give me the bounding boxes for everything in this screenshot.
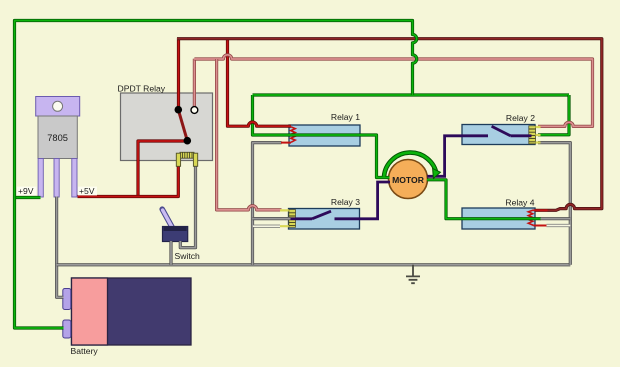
wire red DPDT lower contact to +5V rail bbox=[138, 141, 187, 197]
relay 4 coil pin stub lower (red) bbox=[534, 225, 547, 227]
svg-text:+5V: +5V bbox=[79, 186, 95, 196]
relay 2 box bbox=[462, 125, 535, 145]
wire gray ground bus bbox=[57, 263, 571, 266]
motor rotation arc bbox=[384, 153, 437, 177]
relay 1 box bbox=[289, 125, 360, 146]
battery terminal (negative, top) bbox=[63, 289, 71, 310]
motor M1 body bbox=[389, 160, 428, 199]
wire red DPDT pole up bbox=[177, 38, 180, 111]
svg-text:Switch: Switch bbox=[175, 251, 201, 261]
relay 4 box bbox=[462, 208, 535, 229]
battery body negative (dark) section bbox=[72, 278, 192, 345]
label +5V bbox=[78, 187, 97, 196]
regulator U1 7805 tab bbox=[36, 97, 80, 117]
svg-text:Relay 1: Relay 1 bbox=[331, 112, 360, 122]
DPDT coil leg right bbox=[193, 153, 197, 166]
DPDT switch blade bbox=[178, 110, 187, 141]
wire maroon 9V switched rail (hop over gray at right) bbox=[177, 39, 602, 211]
switch S1 body bbox=[163, 227, 188, 242]
wire purple relay3 common pole bbox=[291, 217, 313, 220]
wire gray DPDT coil to switch bbox=[180, 166, 195, 248]
U1 pin 2 (ground) bbox=[54, 159, 59, 198]
U1 pin 3 (output) bbox=[72, 159, 77, 198]
wire green battery positive loop (hops over maroon and pink) bbox=[15, 21, 417, 329]
switch S1 lever bbox=[162, 209, 173, 228]
svg-text:Relay 2: Relay 2 bbox=[506, 113, 535, 123]
ground symbol bbox=[406, 265, 420, 283]
DPDT coil leg left bbox=[176, 153, 180, 166]
svg-text:+9V: +9V bbox=[18, 186, 34, 196]
U1 body bbox=[38, 116, 77, 159]
DPDT relay box bbox=[121, 93, 213, 161]
wire gray relay2 pin down to bus bbox=[538, 143, 570, 265]
relay 3 pin strip bbox=[289, 210, 296, 228]
wire green left drop through relay1 to motor bbox=[253, 95, 390, 178]
relay 1 coil pin stub lower (red) bbox=[281, 142, 291, 144]
svg-text:MOTOR: MOTOR bbox=[392, 175, 425, 185]
wire purple relay2 pole to pin bbox=[510, 134, 531, 137]
DPDT contact lower (dot) bbox=[184, 137, 192, 145]
wire gray relay1 coil- down to bus bbox=[253, 143, 282, 265]
relay 1 coil zigzag bbox=[291, 127, 295, 143]
wire red +5V rail to DPDT coil bbox=[78, 166, 179, 197]
relay 2 pin stubs (yellow) bbox=[536, 127, 541, 143]
wire white relay4 coil- to gnd drop bbox=[547, 224, 571, 227]
wire gray branch to relay3 common bbox=[253, 217, 291, 220]
DPDT contact NC (open circle) bbox=[191, 107, 198, 114]
relay 4 coil zigzag bbox=[528, 210, 533, 225]
svg-text:DPDT Relay: DPDT Relay bbox=[118, 84, 166, 94]
wire green right drop to relay2 pin bbox=[538, 95, 569, 135]
svg-text:Relay 3: Relay 3 bbox=[331, 197, 360, 207]
wire white relay3 NC pin to gnd drop bbox=[253, 225, 280, 228]
battery terminal (positive, bottom) bbox=[63, 320, 71, 338]
battery positive (pink) section bbox=[72, 278, 108, 345]
wire green 9V rail horizontal bbox=[253, 93, 570, 96]
DPDT coil body bbox=[180, 152, 194, 158]
wire pink DPDT throw contact up bbox=[193, 59, 196, 111]
relay 3 box bbox=[289, 209, 360, 230]
relay 2 switch blade (open) bbox=[492, 126, 511, 136]
relay 2 pin strip bbox=[529, 126, 536, 144]
relay 3 pin stubs (yellow) bbox=[280, 210, 289, 226]
wire gray switch to bus bbox=[169, 241, 172, 265]
svg-text:Battery: Battery bbox=[71, 346, 99, 356]
svg-text:Relay 4: Relay 4 bbox=[505, 198, 534, 208]
DPDT contact pole (dot) bbox=[175, 106, 183, 114]
relay 3 switch blade (open) bbox=[312, 211, 331, 219]
motor rotation arrowhead bbox=[433, 168, 441, 178]
wire purple relay3 throw to motor left bbox=[335, 182, 391, 219]
label +9V bbox=[17, 187, 37, 196]
U1 mounting hole bbox=[53, 101, 63, 111]
wire gray relay4 feedthrough to gnd drop bbox=[541, 217, 571, 220]
relay 4 coil pin stub upper (red) bbox=[534, 209, 548, 211]
wire green +9V branch to U1 input bbox=[15, 196, 41, 199]
wire red from 9V-maroon junction to relay1 coil+ (hop over green) bbox=[228, 39, 292, 127]
wire purple motor right to relay2 throw bbox=[427, 136, 488, 177]
wire green motor-right to relay4 feedthrough bbox=[427, 180, 541, 219]
U1 pin 1 (input) bbox=[38, 159, 43, 198]
svg-text:7805: 7805 bbox=[47, 133, 68, 143]
wire pink top rail to relay2 NO pin (hops over red and green) bbox=[194, 55, 592, 127]
wire pink branch down to relay3 NO pin (hop over gray) bbox=[217, 59, 282, 210]
wire gray U1 gnd down to battery negative bbox=[57, 197, 64, 298]
